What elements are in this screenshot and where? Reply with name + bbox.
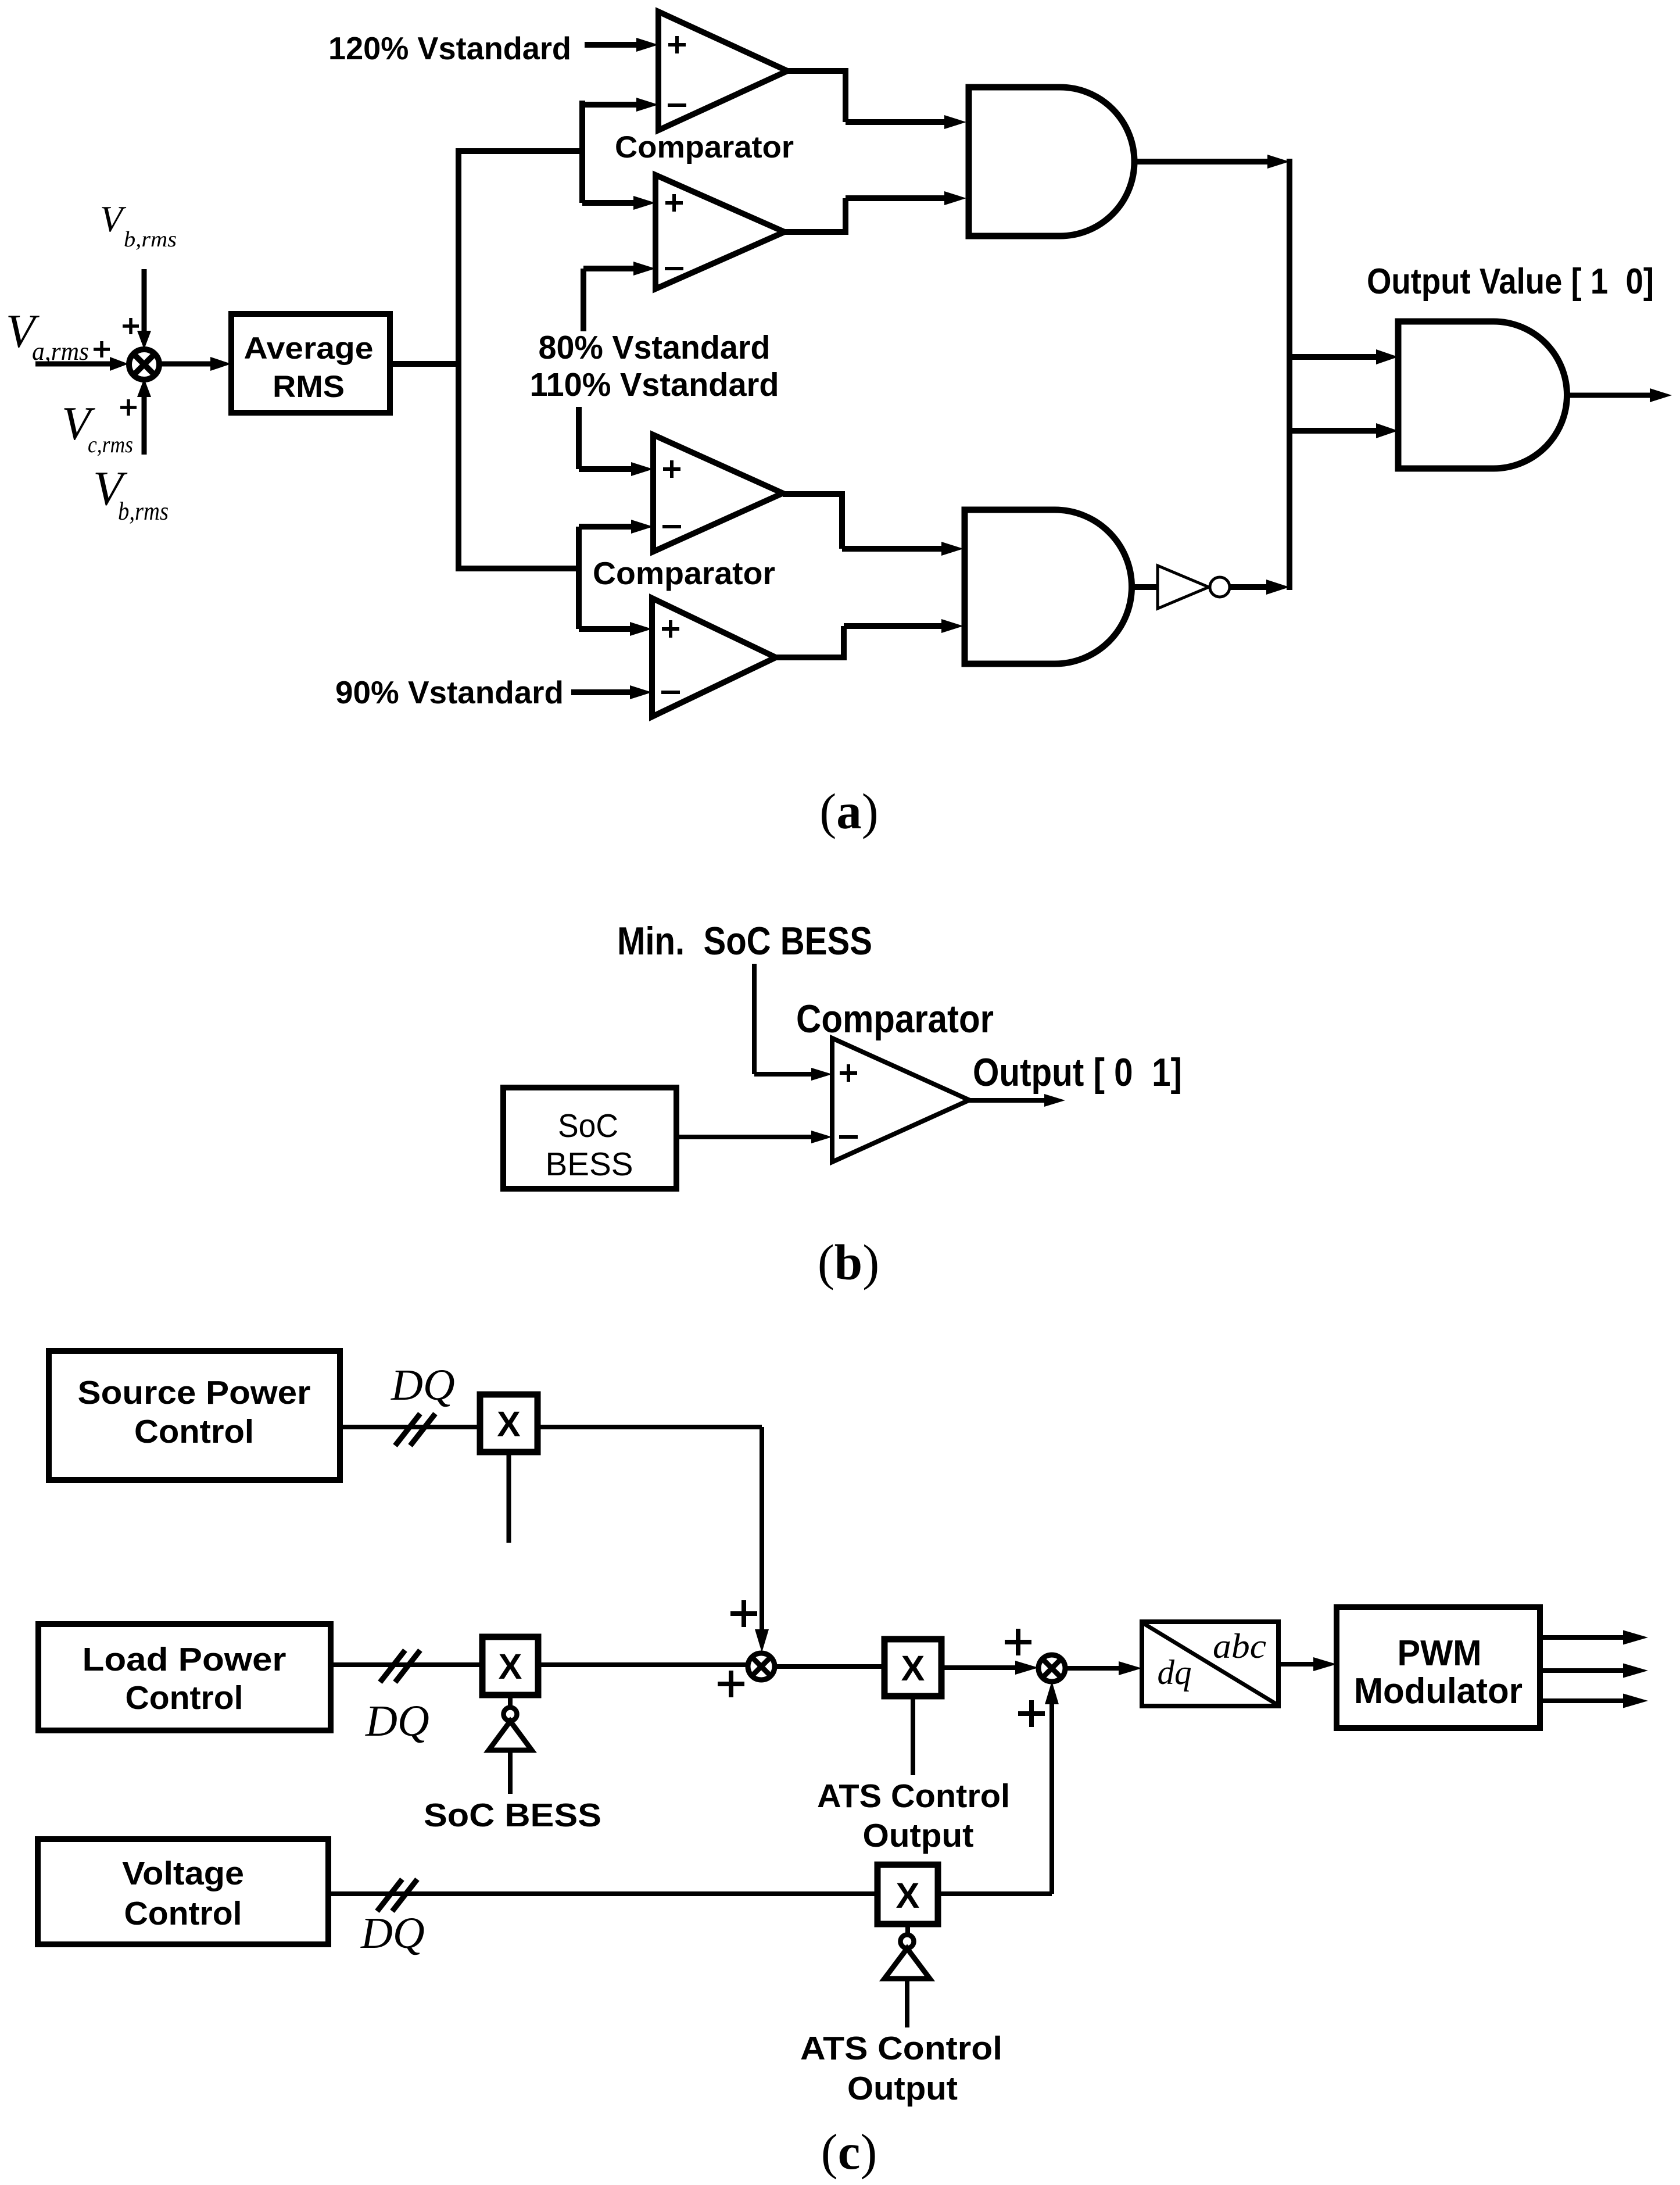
svg-text:Output: Output [863, 1817, 974, 1854]
svg-text:Comparator: Comparator [796, 997, 994, 1041]
svg-text:Output: Output [847, 2070, 958, 2107]
svg-text:Control: Control [124, 1895, 242, 1932]
svg-text:Average: Average [244, 331, 374, 366]
svg-text:X: X [497, 1404, 521, 1444]
svg-text:c,rms: c,rms [88, 431, 133, 457]
svg-text:DQ: DQ [365, 1697, 429, 1746]
svg-text:Output Value [ 1 0]: Output Value [ 1 0] [1367, 262, 1654, 302]
svg-text:RMS: RMS [273, 370, 345, 404]
svg-text:a,rms: a,rms [32, 337, 89, 366]
svg-text:(b): (b) [818, 1234, 879, 1290]
svg-text:ATS Control: ATS Control [817, 1778, 1010, 1815]
svg-text:Min. SoC BESS: Min. SoC BESS [617, 919, 872, 963]
svg-text:Comparator: Comparator [615, 130, 794, 164]
svg-text:b,rms: b,rms [124, 227, 177, 252]
svg-text:120% Vstandard: 120% Vstandard [328, 30, 571, 66]
svg-text:Load Power: Load Power [83, 1641, 286, 1678]
svg-text:PWM: PWM [1398, 1633, 1482, 1673]
svg-text:(a): (a) [819, 783, 878, 839]
svg-text:Source Power: Source Power [78, 1374, 311, 1411]
svg-text:DQ: DQ [391, 1361, 455, 1410]
svg-text:BESS: BESS [546, 1146, 633, 1183]
svg-text:SoC: SoC [558, 1107, 618, 1145]
svg-text:Control: Control [134, 1413, 254, 1450]
svg-text:dq: dq [1158, 1653, 1192, 1692]
svg-text:90% Vstandard: 90% Vstandard [335, 674, 564, 710]
svg-text:Voltage: Voltage [122, 1855, 244, 1892]
svg-text:X: X [896, 1876, 920, 1915]
svg-text:110% Vstandard: 110% Vstandard [530, 366, 779, 403]
svg-text:abc: abc [1213, 1627, 1266, 1665]
svg-text:(c): (c) [821, 2123, 877, 2180]
svg-text:ATS Control: ATS Control [800, 2030, 1002, 2067]
svg-text:X: X [901, 1648, 925, 1688]
svg-text:X: X [499, 1647, 522, 1686]
svg-text:Modulator: Modulator [1354, 1671, 1523, 1711]
svg-text:DQ: DQ [360, 1909, 425, 1958]
svg-text:Comparator: Comparator [593, 555, 775, 591]
svg-text:SoC BESS: SoC BESS [424, 1797, 601, 1834]
svg-text:80% Vstandard: 80% Vstandard [539, 329, 771, 366]
svg-text:b,rms: b,rms [118, 497, 169, 525]
svg-text:Output [ 0 1]: Output [ 0 1] [973, 1050, 1182, 1095]
svg-text:Control: Control [126, 1679, 243, 1716]
